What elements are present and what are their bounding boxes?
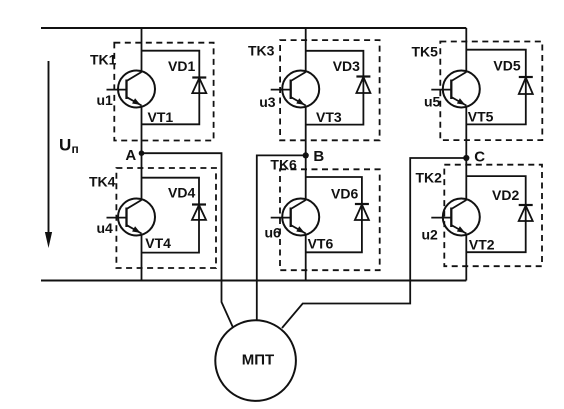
svg-text:u3: u3 [259,94,276,110]
svg-text:u5: u5 [424,94,441,110]
svg-text:VT2: VT2 [469,236,495,252]
svg-text:B: B [313,148,324,165]
svg-text:TK2: TK2 [416,169,443,185]
svg-text:VD5: VD5 [493,58,520,74]
svg-text:TK5: TK5 [412,44,439,60]
svg-text:U: U [59,136,71,155]
svg-text:u2: u2 [422,227,439,243]
svg-text:VT3: VT3 [316,109,342,125]
svg-text:u1: u1 [97,92,114,108]
svg-text:VD3: VD3 [333,58,360,74]
svg-text:u4: u4 [97,220,114,236]
svg-text:TK1: TK1 [90,51,117,67]
svg-text:VD1: VD1 [168,58,195,74]
svg-text:TK3: TK3 [248,43,275,59]
svg-text:VT6: VT6 [308,235,334,251]
svg-text:A: A [125,147,136,164]
svg-text:VT1: VT1 [148,109,174,125]
svg-text:TK6: TK6 [270,157,297,173]
svg-text:VT4: VT4 [145,235,171,251]
svg-text:C: C [474,149,485,166]
svg-text:п: п [72,142,79,156]
svg-text:VD4: VD4 [168,185,195,201]
svg-text:VD2: VD2 [492,187,519,203]
svg-text:TK4: TK4 [89,174,116,190]
svg-text:VD6: VD6 [331,186,358,202]
svg-text:u6: u6 [265,225,282,241]
svg-text:МПТ: МПТ [242,352,274,369]
svg-text:VT5: VT5 [468,109,494,125]
